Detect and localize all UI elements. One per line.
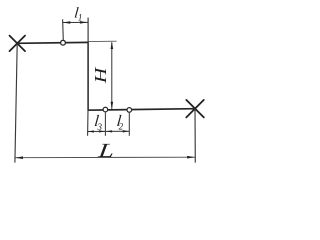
- arrowhead l1 left: [63, 21, 71, 24]
- bead B3 on bottom segment: [127, 108, 132, 113]
- extension line top of step vertical: [87, 18, 89, 43]
- dimension line l2 bottom: [106, 130, 129, 132]
- arrowhead H down: [111, 102, 114, 110]
- wire vertical step segment: [87, 42, 89, 110]
- arrowhead l1 right: [80, 21, 88, 24]
- arrowhead L left: [15, 156, 23, 159]
- dimension line L: [15, 156, 195, 159]
- dimension line H: [111, 42, 113, 109]
- wire bottom horizontal segment: [88, 109, 196, 111]
- extension line for H top: [89, 40, 117, 42]
- extension line L left: [15, 44, 17, 163]
- svg-text:L: L: [96, 140, 115, 162]
- extension line below bead B3: [128, 113, 130, 136]
- svg-text:1: 1: [78, 12, 83, 22]
- svg-text:2: 2: [119, 122, 124, 132]
- bead B2 on bottom segment: [103, 107, 108, 112]
- arrowhead l3 right: [99, 130, 105, 132]
- arrowhead l3 left: [88, 130, 94, 132]
- arrowhead L right: [187, 156, 195, 159]
- pivot X left: [10, 36, 26, 52]
- wire top horizontal segment: [17, 41, 88, 44]
- dimension line l3 bottom-left: [87, 130, 105, 132]
- dimension line l1 top: [63, 21, 88, 23]
- arrowhead l2 right: [123, 130, 129, 132]
- arrowhead l2 left: [106, 130, 112, 132]
- extension line of step vertical below: [87, 110, 89, 136]
- arrowhead H up: [111, 42, 114, 50]
- extension line below bead B2: [104, 113, 106, 136]
- pivot X right: [186, 100, 204, 118]
- extension line above bead B1: [62, 19, 65, 40]
- bead B1 on top segment: [61, 40, 66, 45]
- extension line L right: [194, 109, 196, 163]
- svg-text:3: 3: [97, 122, 103, 132]
- svg-text:H: H: [92, 67, 111, 85]
